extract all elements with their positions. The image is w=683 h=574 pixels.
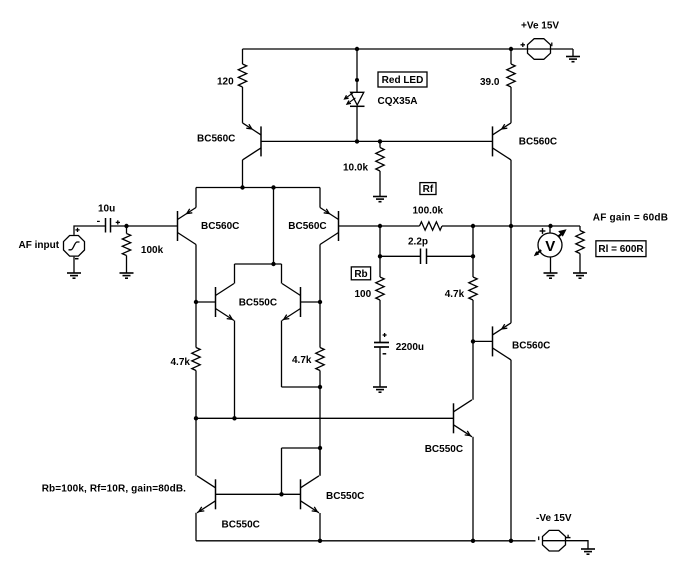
wire Q4 emitter down to bias rail xyxy=(234,321,236,419)
svg-text:2200u: 2200u xyxy=(396,342,424,353)
svg-text:BC560C: BC560C xyxy=(288,221,326,232)
svg-text:2.2p: 2.2p xyxy=(408,236,428,247)
wire 100k bottom lead xyxy=(126,256,128,272)
plus mark at AF source top xyxy=(75,228,79,232)
svg-text:10u: 10u xyxy=(98,203,115,214)
wire voltmeter bottom lead xyxy=(550,257,552,271)
node dot Q2 collector / Q4 base xyxy=(194,300,198,304)
wire Rl top lead xyxy=(579,226,581,231)
minus mark at AF source bottom xyxy=(75,258,79,260)
wire Rb lead xyxy=(379,256,381,277)
minus tick at +Ve source xyxy=(551,43,553,47)
resistor 39.0 (vertical) xyxy=(507,64,515,87)
wire 10.0k top lead xyxy=(379,141,381,147)
node dot output line / voltmeter xyxy=(548,224,552,228)
wire -Ve source to ground xyxy=(566,541,588,549)
node dot tail / cascode base link xyxy=(271,262,275,266)
svg-text:100: 100 xyxy=(355,289,372,300)
transistor Q1 BC560C top-left (PNP) xyxy=(243,123,262,160)
resistor Rb 100 (vertical) xyxy=(376,277,384,300)
LED light arrow 2 xyxy=(347,98,355,104)
svg-text:Rf: Rf xyxy=(423,184,434,195)
wire Q5 emitter down xyxy=(281,321,283,388)
svg-text:+Ve 15V: +Ve 15V xyxy=(521,21,559,32)
node dot output line / Q8-Q9 xyxy=(509,224,513,228)
wire mirror base across xyxy=(282,447,321,449)
svg-text:Rb=100k, Rf=10R, gain=80dB.: Rb=100k, Rf=10R, gain=80dB. xyxy=(42,484,186,495)
minus mark at 2200u xyxy=(383,353,387,355)
wire LTP emitter rail xyxy=(196,187,320,189)
svg-text:AF input: AF input xyxy=(19,240,60,251)
ground for +Ve source xyxy=(566,49,580,62)
wire Q8 collector down to output line xyxy=(510,160,512,226)
wire Q6 collector up to bias rail xyxy=(195,418,197,476)
ground for voltmeter xyxy=(544,271,558,278)
capacitor 2200u bottom plate xyxy=(374,346,389,348)
wire output line right xyxy=(442,225,580,227)
ground for 10.0k xyxy=(373,171,387,202)
svg-text:V: V xyxy=(545,238,555,255)
resistor Rl 600R (vertical) xyxy=(576,231,584,254)
svg-text:Red LED: Red LED xyxy=(382,75,424,86)
wire cascode link right corner down xyxy=(281,264,283,284)
label 2200u value xyxy=(396,342,424,353)
svg-text:120: 120 xyxy=(217,76,234,87)
label Q6 BC550C xyxy=(222,519,260,530)
label 10u xyxy=(98,203,115,214)
svg-text:BC550C: BC550C xyxy=(326,491,364,502)
LED D1 cathode bar xyxy=(350,105,365,107)
minus tick at -Ve source xyxy=(538,536,540,540)
wire output line left xyxy=(339,225,420,227)
node dot Q9 base node xyxy=(471,339,475,343)
transistor Q8 BC560C top-right (PNP) xyxy=(493,123,512,160)
node dot input node / 100k xyxy=(124,224,128,228)
wire voltmeter lead xyxy=(549,226,551,234)
label box Rb xyxy=(351,267,370,280)
resistor 10.0k (vertical) xyxy=(376,148,384,172)
transistor Q2 BC560C input left (PNP) xyxy=(178,208,197,245)
plus mark at -Ve source xyxy=(566,535,571,538)
node dot at 4.7k / Q5 emitter xyxy=(318,385,322,389)
wire 39.0 bottom lead to Q8 emitter xyxy=(510,87,512,123)
transistor Q9 BC560C output (PNP) xyxy=(493,323,512,360)
wire Q9 base xyxy=(473,340,493,342)
wire Q9 emitter up to output line xyxy=(510,226,512,323)
node dot output line / Rb xyxy=(378,224,382,228)
label Q3 BC560C xyxy=(288,221,326,232)
wire AF source bottom lead xyxy=(73,257,75,271)
wire LED cathode to bias line xyxy=(356,106,358,141)
transistor Q6 BC550C bottom-left (NPN) xyxy=(197,476,216,513)
wire +Ve source to ground xyxy=(551,48,573,50)
wire 10u to Q2 base xyxy=(111,225,178,227)
svg-text:4.7k: 4.7k xyxy=(445,289,465,300)
wire Q7 emitter down to neg rail xyxy=(319,513,321,541)
resistor 4.7k left (vertical) xyxy=(192,348,200,371)
node dot 2.2p right xyxy=(471,254,475,258)
svg-text:BC550C: BC550C xyxy=(239,297,277,308)
svg-text:Rb: Rb xyxy=(354,269,367,280)
voltmeter circle xyxy=(538,233,562,257)
svg-text:100.0k: 100.0k xyxy=(413,205,444,216)
node dot Q3 collector / Q5 base xyxy=(318,300,322,304)
wire LED anode lead xyxy=(356,49,358,92)
transistor Q5 BC550C cascode right (NPN) xyxy=(282,284,301,321)
transistor Q10 BC550C VAS (NPN) xyxy=(454,400,473,437)
wire bias line y=141 (Q1 base to Q8 base) xyxy=(261,140,493,142)
label 100 value xyxy=(355,289,372,300)
resistor 120 (vertical) xyxy=(238,64,246,87)
label 4.7k fb value xyxy=(445,289,465,300)
label 10.0k value xyxy=(343,162,368,173)
AF source waveform glyph xyxy=(69,242,80,250)
node dot 2.2p left xyxy=(378,254,382,258)
svg-text:10.0k: 10.0k xyxy=(343,162,368,173)
node dot Q1 collector at rail xyxy=(240,185,244,189)
node dot LED top at rail xyxy=(355,47,359,51)
wire 2.2p line left xyxy=(380,255,421,257)
label AF input xyxy=(19,240,60,251)
wire Rl bottom lead xyxy=(579,254,581,272)
wire cascode base link horizontal xyxy=(235,263,282,265)
wire Q10 collector up to Q9 base xyxy=(472,341,474,399)
ground for AF source xyxy=(67,271,81,278)
resistor Rf 100.0k (horizontal) xyxy=(420,222,443,230)
wire rail right corner down xyxy=(319,188,321,208)
svg-text:BC560C: BC560C xyxy=(512,340,550,351)
node dot neg rail / Q7 emitter xyxy=(318,539,322,543)
node dot LED anode pin xyxy=(355,78,359,82)
label -Ve 15V xyxy=(536,513,572,524)
wire 4.7k right bottom lead xyxy=(319,371,321,476)
svg-text:39.0: 39.0 xyxy=(480,77,500,88)
wire through -Ve source xyxy=(543,540,566,542)
wire Q5 base to Q3 collector xyxy=(301,301,321,303)
wire Q3 collector down xyxy=(319,245,321,348)
wire Q10 emitter down to neg rail xyxy=(472,437,474,541)
capacitor 2200u top plate xyxy=(374,342,389,344)
wire Q6 emitter down to neg rail xyxy=(195,513,197,541)
svg-text:AF gain = 60dB: AF gain = 60dB xyxy=(593,212,668,223)
label 4.7k LTP right value xyxy=(292,355,312,366)
AF input source octagon xyxy=(64,236,85,257)
wire 2.2p line right xyxy=(427,255,474,257)
wire 120 bottom lead to Q1 emitter xyxy=(242,87,244,123)
label Q10 BC550C xyxy=(425,444,463,455)
wire Q4 base to Q2 collector xyxy=(196,301,216,303)
wire mirror base up xyxy=(281,448,283,494)
wire Rb to 2200u xyxy=(379,300,381,343)
transistor Q3 BC560C input right (PNP) xyxy=(320,208,339,245)
node dot bias rail / Q4 emitter xyxy=(232,416,236,420)
wire through +Ve source xyxy=(528,48,551,50)
label box Rf xyxy=(420,183,436,196)
power source -Ve 15V octagon xyxy=(543,530,566,551)
wire rail left corner down xyxy=(195,188,197,208)
svg-text:BC560C: BC560C xyxy=(519,136,557,147)
plus mark at voltmeter xyxy=(540,228,546,234)
node dot neg rail / Q10 emitter xyxy=(471,539,475,543)
svg-text:BC560C: BC560C xyxy=(197,134,235,145)
node dot bias line / LED xyxy=(355,139,359,143)
node dot neg rail / Q9 collector xyxy=(509,539,513,543)
svg-text:100k: 100k xyxy=(141,245,164,256)
resistor 4.7k feedback (vertical) xyxy=(469,277,477,300)
capacitor 10u left plate xyxy=(105,218,107,233)
svg-text:-Ve 15V: -Ve 15V xyxy=(536,513,572,524)
svg-text:BC550C: BC550C xyxy=(425,444,463,455)
node dot top rail / 39.0 xyxy=(509,47,513,51)
wire AF source to coupling cap xyxy=(74,226,106,235)
voltmeter needle arrow xyxy=(558,229,566,236)
capacitor 10u right plate xyxy=(110,218,112,233)
ground for -Ve source xyxy=(581,549,595,554)
svg-text:BC560C: BC560C xyxy=(201,221,239,232)
wire bias rail y=418 xyxy=(196,417,454,419)
voltmeter V glyph xyxy=(545,238,555,255)
wire Q1 collector down to LTP emitter rail xyxy=(242,160,244,188)
wire negative rail xyxy=(196,540,536,542)
wire 100k top lead xyxy=(126,226,128,234)
label Q7 BC550C xyxy=(326,491,364,502)
wire 4.7k left bottom lead xyxy=(195,371,197,419)
ground for 2200u xyxy=(373,387,387,393)
label Q2 BC560C xyxy=(201,221,239,232)
label 2.2p xyxy=(408,236,428,247)
label Q9 BC560C xyxy=(512,340,550,351)
label Q8 BC560C xyxy=(519,136,557,147)
label AF gain = 60dB xyxy=(593,212,668,223)
wire Q9 collector down to neg rail xyxy=(510,360,512,541)
capacitor 2.2p right plate xyxy=(426,249,428,265)
wire Q2 collector down xyxy=(195,245,197,348)
svg-text:BC550C: BC550C xyxy=(222,519,260,530)
label CQX35A xyxy=(378,96,418,107)
minus tick at 10u cap xyxy=(97,220,100,222)
node dot mirror base node xyxy=(279,492,283,496)
label 4.7k left value xyxy=(171,357,191,368)
wire Rb top xyxy=(379,226,381,256)
wire 2200u bottom lead xyxy=(379,347,381,387)
capacitor 2.2p left plate xyxy=(420,249,422,265)
label +Ve 15V xyxy=(521,21,559,32)
label gain note xyxy=(42,484,186,495)
label box Red LED xyxy=(378,72,427,87)
label 39.0 value xyxy=(480,77,500,88)
node dot output line / 4.7k xyxy=(471,224,475,228)
label Q1 BC560C xyxy=(197,134,235,145)
wire 4.7k fb bottom lead xyxy=(472,300,474,341)
resistor 4.7k LTP right (vertical) xyxy=(316,348,324,371)
wire mirror base link xyxy=(216,493,301,495)
voltmeter needle tail xyxy=(534,250,541,256)
svg-text:4.7k: 4.7k xyxy=(171,357,191,368)
wire 4.7k fb top lead xyxy=(472,226,474,277)
plus mark at 2200u xyxy=(383,333,387,337)
label 120 value xyxy=(217,76,234,87)
wire 120-resistor top lead xyxy=(242,49,244,64)
svg-text:4.7k: 4.7k xyxy=(292,355,312,366)
label box Rl = 600R xyxy=(596,241,646,257)
ground for 100k xyxy=(120,271,134,278)
wire Q5 emitter across to 4.7k xyxy=(282,386,321,388)
resistor 100k (vertical) xyxy=(122,234,130,256)
svg-text:CQX35A: CQX35A xyxy=(378,96,418,107)
transistor Q4 BC550C cascode left (NPN) xyxy=(216,284,235,321)
label cascode pair BC550C xyxy=(239,297,277,308)
plus mark at +Ve source xyxy=(521,43,526,47)
label 100k value xyxy=(141,245,164,256)
power source +Ve 15V octagon xyxy=(528,39,551,60)
node dot bias rail left end xyxy=(194,416,198,420)
wire tail down from rail xyxy=(273,188,275,265)
transistor Q7 BC550C bottom-right (NPN) xyxy=(301,476,320,513)
wire 39.0 top lead xyxy=(510,49,512,64)
label 100.0k value xyxy=(413,205,444,216)
LED light arrow 1 xyxy=(345,93,353,99)
wire top supply rail xyxy=(243,48,528,50)
wire Q7 collector segment xyxy=(319,448,321,476)
node dot mirror diode link xyxy=(318,446,322,450)
plus mark at 10u cap xyxy=(116,220,120,224)
node dot rail / tail wire xyxy=(271,185,275,189)
wire cascode link left corner down xyxy=(234,264,236,284)
LED D1 triangle xyxy=(351,92,364,105)
svg-text:Rl = 600R: Rl = 600R xyxy=(598,244,644,255)
node dot bias line / 10.0k xyxy=(378,139,382,143)
ground for Rl xyxy=(573,271,587,278)
